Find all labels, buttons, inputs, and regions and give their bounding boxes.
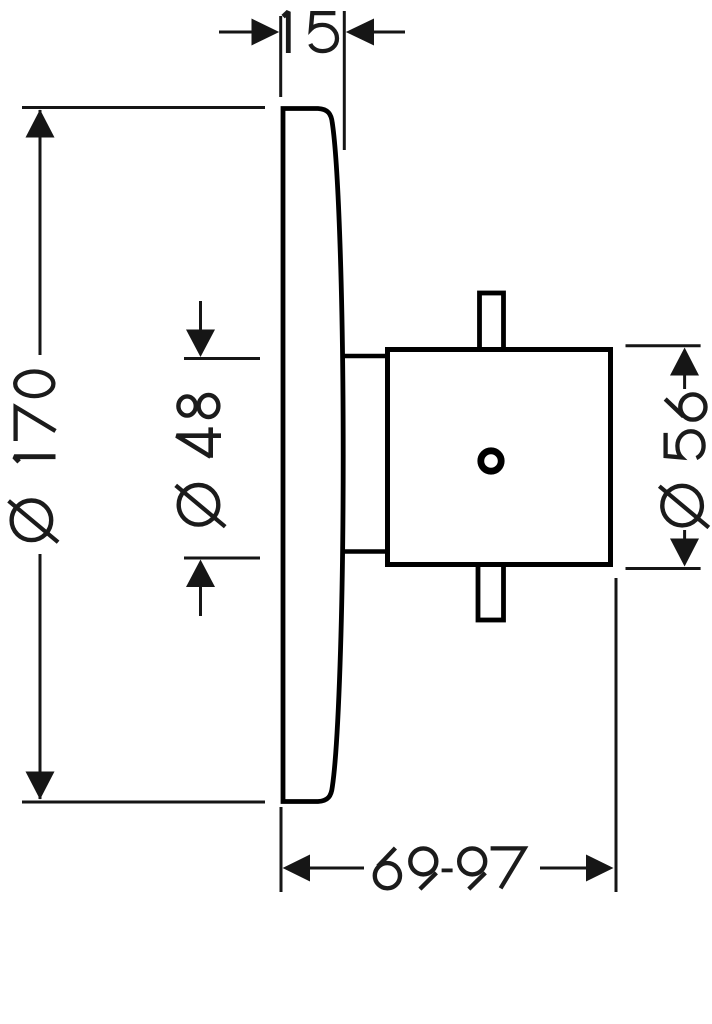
- dimension D56 : bottom arrow: [670, 539, 699, 567]
- dimension D56 : bottom stub: [683, 530, 686, 539]
- dimension D56 : bottom extension line: [626, 567, 701, 570]
- dimension D170 : label digit 0: [15, 372, 53, 397]
- dimension D48 : label digit 4: [177, 427, 222, 457]
- dimension 15 : left extension line: [279, 16, 282, 97]
- dimension 69-97 : label digit 6: [375, 848, 400, 888]
- dimension 15 : right extension line: [343, 11, 346, 150]
- dimension D170 : bottom extension line: [22, 801, 265, 804]
- dimension D56 : label digit 6: [665, 394, 705, 419]
- dimension D170 : label digit 1: [14, 457, 55, 462]
- dimension D48 : top tick: [184, 357, 260, 360]
- dimension D48 : label diameter symbol: [176, 485, 226, 527]
- dimension D170 : bottom arrow: [26, 772, 55, 800]
- escutcheon plate profile: [283, 109, 343, 802]
- dimension 69-97 : dimension line left segment: [308, 867, 364, 870]
- dimension D170 : top extension line: [22, 106, 265, 109]
- dimension 69-97 : dimension line right segment: [540, 867, 588, 870]
- connector sleeve between plate and valve body: [338, 356, 389, 552]
- dimension D48 : bottom arrow: [186, 560, 215, 588]
- dimension 69-97 : left extension line: [280, 807, 283, 892]
- center screw circle: [481, 451, 501, 471]
- dimension 15 : label digit 5: [310, 13, 337, 51]
- dimension D170 : dimension line upper: [39, 110, 42, 355]
- dimension 69-97 : left arrow: [283, 855, 310, 882]
- dimension 15 : label digit 1: [283, 12, 288, 53]
- valve body square: [388, 350, 611, 565]
- dimension D56 : label digit 5: [666, 431, 704, 458]
- dimension D56 : top stub: [683, 376, 686, 390]
- dimension D48 : top stub: [199, 301, 202, 330]
- bottom pin: [478, 560, 504, 620]
- dimension 69-97 : right extension line: [615, 578, 618, 892]
- dimension D56 : label diameter symbol: [659, 486, 709, 528]
- dimension D170 : top arrow: [26, 110, 55, 138]
- dimension D48 : bottom stub: [199, 587, 202, 616]
- dimension 15 : right arrow: [373, 31, 405, 34]
- dimension D48 : top arrow: [186, 330, 215, 358]
- dimension D170 : dimension line lower: [39, 554, 42, 799]
- dimension 69-97 : label digit 9: [410, 848, 436, 889]
- dimension 69-97 : label digit 9 second: [459, 848, 485, 889]
- dimension D56 : top arrow: [670, 348, 699, 376]
- dimension D56 : top extension line: [626, 344, 701, 347]
- dimension 69-97 : right arrow: [586, 855, 614, 882]
- dimension 69-97 : label digit 7: [491, 848, 525, 888]
- dimension 15 : left arrow: [219, 31, 254, 34]
- dimension D48 : label digit 8: [178, 395, 218, 417]
- dimension 69-97 : label hyphen: [442, 869, 453, 871]
- top pin: [480, 293, 504, 352]
- dimension D48 : bottom tick: [184, 557, 260, 560]
- dimension D170 : label diameter symbol: [9, 501, 59, 543]
- dimension D170 : label digit 7: [16, 407, 56, 441]
